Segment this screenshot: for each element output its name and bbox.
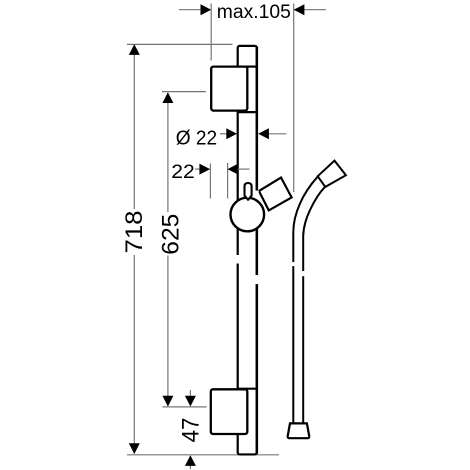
- hose end cone: [288, 423, 310, 438]
- arrow 625 top: [162, 92, 173, 103]
- svg-text:Ø 22: Ø 22: [176, 127, 217, 149]
- rail right edge emphasis: [256, 47, 259, 454]
- arrow 625 bottom: [162, 396, 173, 407]
- dimension line 718: [133, 45, 135, 209]
- rail break gap right: [255, 275, 260, 284]
- top bracket barrel top edge: [246, 65, 258, 67]
- extension line 22 right: [227, 163, 229, 199]
- wall bar rail: [238, 46, 257, 455]
- svg-text:47: 47: [177, 418, 204, 443]
- arrow 718 top: [129, 44, 140, 55]
- hidden rail edge behind slider: [255, 191, 258, 201]
- svg-text:max.105: max.105: [217, 2, 291, 23]
- dimension tail max105 right: [294, 9, 326, 11]
- extension line max105 right: [293, 4, 295, 193]
- arrow 47 top: [185, 396, 196, 407]
- shower holder handle: [259, 178, 292, 211]
- slider release pin: [245, 183, 252, 200]
- bottom bracket: [211, 389, 248, 434]
- slider body circle: [231, 198, 265, 232]
- hose right line: [303, 187, 325, 423]
- dimension tail 22 right: [238, 168, 250, 170]
- hose conical nut: [318, 161, 346, 187]
- extension line 22 left: [209, 164, 211, 199]
- dimension line 47 upper: [189, 390, 191, 399]
- arrow max105 right: [294, 4, 305, 15]
- dimension tail O22 left: [220, 133, 227, 135]
- arrow O22 right: [258, 128, 269, 139]
- extension line bottom (718/47): [127, 454, 279, 456]
- top bracket: [211, 67, 247, 111]
- hose left line: [293, 177, 317, 423]
- dimension line 625: [167, 93, 169, 212]
- arrow max105 left: [201, 4, 212, 15]
- svg-text:22: 22: [171, 162, 195, 183]
- svg-text:718: 718: [121, 211, 148, 254]
- arrow 718 bottom: [129, 443, 140, 454]
- arrow 22 left: [199, 164, 210, 175]
- extension line 625 bottom / 47 top: [163, 406, 207, 408]
- hose break gap left: [291, 262, 296, 266]
- arrow 22 right: [228, 164, 239, 175]
- arrow O22 left: [226, 128, 237, 139]
- arrow 47 bottom: [185, 455, 196, 466]
- dimension tail max105 left: [179, 9, 201, 11]
- dimension tail 22 left: [195, 168, 200, 170]
- extension line 718 top: [127, 43, 233, 45]
- bottom bracket barrel top edge: [237, 388, 258, 390]
- rail break gap left: [236, 255, 240, 264]
- extension line max105 left: [210, 4, 212, 61]
- hose break gap right: [301, 271, 306, 276]
- dimension line 47 lower: [189, 463, 191, 469]
- svg-text:625: 625: [158, 214, 185, 255]
- top bracket barrel bottom edge: [237, 111, 258, 113]
- extension line 625 top: [162, 91, 206, 93]
- dimension tail O22 right: [259, 133, 287, 135]
